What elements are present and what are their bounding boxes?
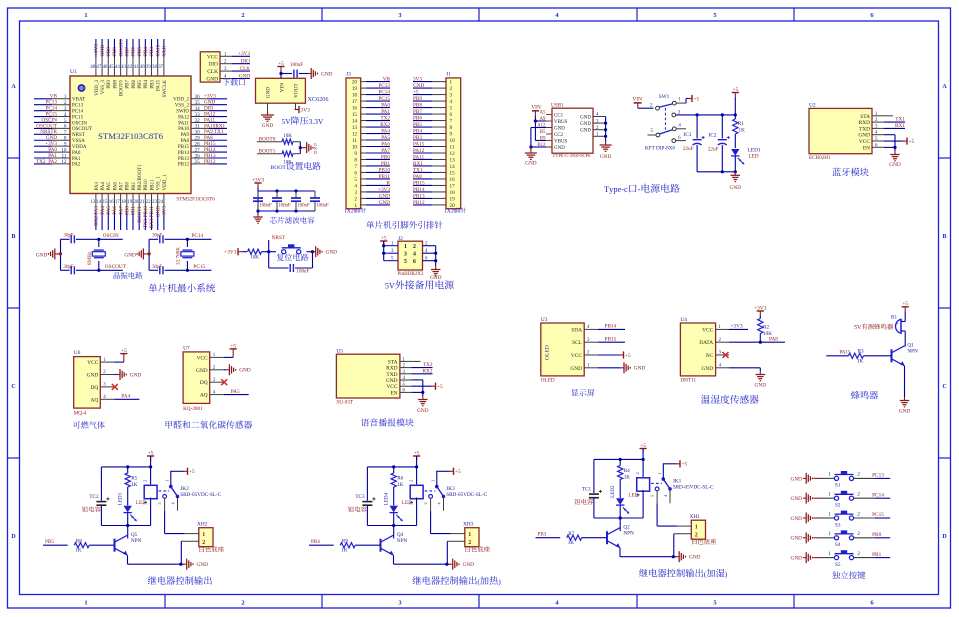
svg-text:OSCIN: OSCIN xyxy=(72,121,87,126)
svg-text:TX1: TX1 xyxy=(895,117,905,123)
svg-text:A: A xyxy=(11,84,16,90)
svg-text:PA6: PA6 xyxy=(113,182,118,191)
svg-text:22uF: 22uF xyxy=(683,146,694,152)
svg-text:BOOT1: BOOT1 xyxy=(137,206,143,223)
wire XH3 pin2 to gnd xyxy=(446,541,448,564)
svg-text:S3: S3 xyxy=(835,522,841,528)
J1 pin 4 net PB9 xyxy=(413,96,453,105)
svg-text:PC15: PC15 xyxy=(378,96,390,102)
svg-text:EN: EN xyxy=(863,145,870,151)
svg-text:15: 15 xyxy=(352,112,358,118)
svg-text:42: 42 xyxy=(127,65,132,70)
svg-text:1: 1 xyxy=(84,12,87,19)
power +5 U6 xyxy=(114,348,127,362)
capacitor TC2 tantalum xyxy=(89,467,109,526)
svg-text:20: 20 xyxy=(352,80,358,86)
push button S1 xyxy=(820,471,860,489)
relay coil JK2 xyxy=(143,467,158,526)
net +3V3 at U4 VCC xyxy=(729,324,748,330)
svg-text:R: R xyxy=(387,180,391,186)
U1 top pin 45 (PB8) net PB8 xyxy=(109,39,119,89)
svg-text:+5: +5 xyxy=(230,343,236,349)
relay contacts JK1 SRD-05VDC-SL-C xyxy=(650,472,714,503)
svg-text:2: 2 xyxy=(143,480,148,482)
U7 pin 2 (GND) xyxy=(196,366,224,374)
svg-text:4: 4 xyxy=(413,251,416,257)
sensor U4 DHT11 body xyxy=(680,317,729,383)
svg-text:+5: +5 xyxy=(732,87,738,93)
svg-text:SRD-05VDC-SL-C: SRD-05VDC-SL-C xyxy=(446,492,487,498)
label 白色底座 XH2 xyxy=(200,546,224,552)
svg-text:PB12: PB12 xyxy=(204,159,216,165)
svg-text:PA11: PA11 xyxy=(178,121,189,126)
caption 显示屏 xyxy=(571,389,595,396)
svg-text:R5: R5 xyxy=(131,476,137,482)
net PC15 xyxy=(187,264,211,270)
svg-text:GND: GND xyxy=(262,123,274,129)
caption 晶振电路 xyxy=(114,272,143,279)
svg-text:+3V3: +3V3 xyxy=(252,177,265,183)
svg-text:PC14: PC14 xyxy=(378,89,390,95)
U1 right pin 33 (PA12) net PA12 xyxy=(178,111,227,120)
U1 left pin 4 (PC15) net PC15 xyxy=(34,111,84,120)
svg-text:RXD: RXD xyxy=(859,120,870,126)
net TX1 at U2 RXD xyxy=(884,117,905,123)
svg-text:PB14: PB14 xyxy=(178,151,190,156)
J3 pin 10 net PA6 xyxy=(352,141,391,150)
svg-text:JK1: JK1 xyxy=(673,478,682,484)
svg-text:VOUT: VOUT xyxy=(294,83,300,98)
svg-text:20: 20 xyxy=(133,200,138,205)
svg-text:NRST: NRST xyxy=(272,235,286,241)
svg-text:JK3: JK3 xyxy=(446,486,455,492)
J3 pin 4 net R xyxy=(354,180,390,189)
power +3V3 reset xyxy=(224,248,247,256)
wire buzzer to Q1 collector xyxy=(904,331,906,347)
capacitor 30pF top Y1 8MHz xyxy=(61,233,99,243)
wire relay JK3 top rail xyxy=(367,465,418,468)
svg-text:GND: GND xyxy=(155,206,161,217)
svg-text:PA4: PA4 xyxy=(121,394,130,400)
svg-text:PB8: PB8 xyxy=(112,47,118,56)
svg-text:GND: GND xyxy=(326,250,338,256)
net PA8 wire at U4 DATA xyxy=(729,337,785,344)
svg-text:GND: GND xyxy=(702,366,714,372)
J3 pin 8 net PB0 xyxy=(354,154,390,163)
svg-text:PB15: PB15 xyxy=(413,180,425,186)
svg-text:ECB02H1: ECB02H1 xyxy=(809,155,831,161)
svg-text:2: 2 xyxy=(857,551,860,557)
svg-text:R9: R9 xyxy=(342,539,348,545)
svg-text:PB1: PB1 xyxy=(132,181,137,190)
power +3V3 above R2 xyxy=(754,305,767,318)
U1 bottom pin 16 (PA6) net PA6 xyxy=(109,182,119,230)
svg-text:8MHz: 8MHz xyxy=(87,251,93,265)
U1 bottom pin 18 (PB0) net PB0 xyxy=(121,181,131,230)
svg-text:24: 24 xyxy=(158,200,163,205)
svg-text:+3V3: +3V3 xyxy=(224,250,237,256)
svg-text:GND: GND xyxy=(634,366,646,372)
ground U4 xyxy=(729,368,766,389)
U1 top pin 47 (VSS_3) net GND xyxy=(96,39,106,94)
svg-text:VDDA: VDDA xyxy=(72,145,87,150)
relay contacts JK3 SRD-05VDC-SL-C xyxy=(423,480,487,511)
net PB14 at U3 SDA xyxy=(598,324,625,330)
wire SW1 pin3 to caps rail xyxy=(676,113,737,116)
power +5 relay contact JK3 xyxy=(436,468,461,487)
caption 下载口 xyxy=(223,78,245,85)
svg-text:5: 5 xyxy=(635,495,640,497)
svg-text:DIO: DIO xyxy=(208,62,218,68)
svg-text:TXD: TXD xyxy=(386,372,397,378)
U1 bottom pin 24 (VDD_1) net +3V3 xyxy=(158,174,168,230)
wire USB1 right gnd bus xyxy=(604,117,607,142)
svg-text:PC14: PC14 xyxy=(72,109,84,114)
ground button S5 xyxy=(791,552,820,563)
svg-text:PB4: PB4 xyxy=(311,539,320,545)
ground U6 xyxy=(114,369,141,380)
svg-text:+5: +5 xyxy=(414,450,420,456)
svg-text:VBAT: VBAT xyxy=(72,98,85,103)
svg-text:PC14: PC14 xyxy=(872,492,884,498)
svg-text:PB4: PB4 xyxy=(143,47,149,56)
transistor Q1 NPN xyxy=(892,343,919,366)
svg-text:U1: U1 xyxy=(70,69,77,75)
svg-text:GND: GND xyxy=(413,83,424,89)
U1 right pin 35 (VSS_2) net GND xyxy=(175,100,227,109)
label 钽电容 TC2 xyxy=(82,506,101,512)
svg-text:+5: +5 xyxy=(625,353,631,359)
svg-text:GND: GND xyxy=(791,496,803,502)
svg-text:PA7: PA7 xyxy=(381,148,390,154)
svg-text:12: 12 xyxy=(352,131,358,137)
U1 left pin 2 (PC13) net PC13 xyxy=(34,100,84,109)
svg-text:PA4: PA4 xyxy=(381,128,390,134)
svg-text:SRD-05VDC-SL-C: SRD-05VDC-SL-C xyxy=(180,492,221,498)
svg-text:B1: B1 xyxy=(891,315,897,321)
svg-text:C: C xyxy=(11,384,15,390)
power +5 into VIN xyxy=(277,61,284,78)
module U5 SU-03T body xyxy=(336,348,411,405)
wire U2 STA stub xyxy=(884,115,893,117)
svg-text:TC2: TC2 xyxy=(89,494,99,500)
svg-text:5: 5 xyxy=(409,503,414,505)
net PC14 xyxy=(187,233,211,239)
connector J2 PinHDR2X3 body xyxy=(384,236,436,277)
svg-text:25: 25 xyxy=(195,159,201,165)
svg-text:16: 16 xyxy=(109,200,114,205)
label 钽电容 TC3 xyxy=(348,506,367,512)
J3 pin 18 net PC14 xyxy=(352,89,391,98)
svg-text:PA3: PA3 xyxy=(95,182,100,191)
push button S2 xyxy=(820,491,860,509)
svg-text:TX2 PA2: TX2 PA2 xyxy=(36,159,57,165)
wire relay JK2 bottom node xyxy=(101,524,150,527)
svg-text:6: 6 xyxy=(354,170,357,176)
no-connect X at U4 NC xyxy=(723,352,730,358)
capacitor 100nF at XC6206 input xyxy=(281,62,308,78)
svg-text:18: 18 xyxy=(121,200,126,205)
wire relay JK3 bottom node xyxy=(367,524,416,527)
svg-text:NPN: NPN xyxy=(131,538,142,544)
svg-text:11: 11 xyxy=(450,144,455,150)
caption 继电器控制输出(加湿) xyxy=(639,569,728,579)
U1 bottom pin 19 (PB1) net PB1 xyxy=(127,181,137,230)
svg-text:5: 5 xyxy=(143,503,148,505)
caption 继电器控制输出 xyxy=(148,576,212,585)
U1 top pin 48 (VDD_3) net +3V3 xyxy=(90,39,100,96)
svg-text:2: 2 xyxy=(409,480,414,482)
svg-text:V: V xyxy=(318,117,324,126)
U1 right pin 29 (PA8) net PA8 xyxy=(181,135,227,144)
svg-text:DIO: DIO xyxy=(241,59,250,65)
svg-text:SWCLK: SWCLK xyxy=(163,80,168,98)
U1 bottom pin 17 (PA7) net PA7 xyxy=(115,182,125,230)
svg-text:10K: 10K xyxy=(283,134,292,139)
U1 right pin 27 (PB14) net PB14 xyxy=(178,147,227,156)
connector XH1 white socket xyxy=(674,514,706,539)
power +5 at U3 VCC xyxy=(598,351,631,359)
svg-text:U4: U4 xyxy=(680,317,687,323)
U1 left pin 9 (VDDA) net +3V3 xyxy=(34,141,87,150)
svg-text:PB8: PB8 xyxy=(113,80,118,89)
svg-text:R4: R4 xyxy=(624,468,630,474)
no-connect X U7 DQ xyxy=(221,379,227,385)
svg-text:GND: GND xyxy=(239,368,251,374)
wire relay NO contact to XH2 xyxy=(165,511,185,534)
svg-text:GND: GND xyxy=(463,562,475,568)
power +5 type-c xyxy=(732,87,739,115)
ground button S1 xyxy=(791,473,820,484)
svg-text:GND: GND xyxy=(554,146,565,151)
svg-text:PA1: PA1 xyxy=(381,109,390,115)
label 钽电容 TC1 xyxy=(574,499,593,505)
svg-text:VCC: VCC xyxy=(197,355,208,361)
transistor Q5 NPN xyxy=(115,526,142,556)
svg-text:+5: +5 xyxy=(278,61,284,67)
svg-text:B5: B5 xyxy=(540,130,546,135)
capacitor 100nF filter 1 xyxy=(253,191,272,211)
J3 pin 12 net PA4 xyxy=(352,128,391,137)
connector XH3 white socket xyxy=(447,522,479,547)
svg-text:LED2: LED2 xyxy=(611,485,616,498)
J1 pin 10 net PB3 xyxy=(413,135,455,144)
svg-text:3: 3 xyxy=(404,251,407,257)
capacitor 100nF filter 3 xyxy=(291,191,310,211)
svg-text:BOOT0: BOOT0 xyxy=(118,39,124,56)
svg-text:TX1: TX1 xyxy=(413,167,423,173)
svg-text:DATA: DATA xyxy=(699,340,713,346)
J3 pin 5 net PB11 xyxy=(354,174,390,183)
switch SW1 KFT DIP-8X8 xyxy=(645,94,686,152)
svg-text:1: 1 xyxy=(828,492,831,498)
J1 pin 17 net PB15 xyxy=(413,180,455,189)
svg-text:PB9: PB9 xyxy=(107,80,112,89)
net OSCOUT xyxy=(99,264,127,270)
svg-text:100nF: 100nF xyxy=(297,203,310,208)
svg-text:47: 47 xyxy=(96,65,101,70)
ground button S4 xyxy=(791,532,820,543)
svg-text:PB3: PB3 xyxy=(149,47,155,56)
svg-text:PA15: PA15 xyxy=(413,141,425,147)
regulator U? XC6206 body xyxy=(256,78,329,103)
svg-text:+5: +5 xyxy=(381,235,387,241)
net PC15 at button S3 xyxy=(854,512,891,518)
svg-text:1K: 1K xyxy=(131,482,138,488)
power +5 relay contact JK1 xyxy=(663,460,688,479)
svg-text:30pF: 30pF xyxy=(64,233,74,238)
svg-text:U6: U6 xyxy=(74,350,81,356)
svg-text:PA8: PA8 xyxy=(769,337,778,343)
svg-text:GND: GND xyxy=(206,77,218,83)
wire relay NO contact to XH3 xyxy=(431,511,451,534)
U1 left pin 11 (PA1) net PA1 xyxy=(34,153,81,162)
svg-text:Q5: Q5 xyxy=(131,532,138,538)
U1 top pin 42 (PB6) net PB6 xyxy=(127,39,137,89)
svg-text:PB1: PB1 xyxy=(131,206,137,215)
svg-text:PA4: PA4 xyxy=(100,206,106,215)
svg-text:1: 1 xyxy=(468,532,471,538)
J1 pin 18 net PB14 xyxy=(413,187,455,196)
svg-text:VSS_2: VSS_2 xyxy=(175,104,190,109)
svg-text:GND: GND xyxy=(525,161,537,167)
J1 pin 7 net PB6 xyxy=(413,115,453,124)
svg-text:PB3: PB3 xyxy=(150,80,155,89)
svg-text:1: 1 xyxy=(828,551,831,557)
svg-text:32.768K: 32.768K xyxy=(175,247,181,265)
svg-text:PB3: PB3 xyxy=(538,532,547,538)
wire Q5 emitter to gnd rail xyxy=(128,555,184,566)
svg-text:D: D xyxy=(314,150,317,155)
svg-text:PB5: PB5 xyxy=(137,47,143,56)
caption 5V外接备用电源 xyxy=(385,280,454,290)
svg-text:10: 10 xyxy=(450,138,456,144)
ground USB1 right xyxy=(600,142,612,161)
svg-text:1: 1 xyxy=(695,525,698,531)
wire relay JK2 top rail xyxy=(101,465,152,468)
svg-text:KFT DIP-8X8: KFT DIP-8X8 xyxy=(645,146,675,152)
caption 甲醛和二氧化碳传感器 xyxy=(166,421,253,429)
resistor R1 1K xyxy=(733,115,745,148)
resistor R8 1K xyxy=(74,539,114,554)
J1 pin 3 net +5 xyxy=(413,89,453,98)
J1 pin 14 net RX1 xyxy=(413,161,455,170)
svg-text:SCL: SCL xyxy=(572,340,582,346)
svg-text:GND: GND xyxy=(100,45,106,56)
svg-text:1X20: 1X20 xyxy=(444,209,457,215)
net RX1 at U2 TXD xyxy=(884,123,905,129)
svg-text:19: 19 xyxy=(352,86,358,92)
capacitor IC1 22uF xyxy=(683,115,705,172)
caption BOOT设置电路 xyxy=(270,162,320,171)
ground relay JK2 xyxy=(184,559,209,570)
U1 left pin 7 (NRST) net NRSTR xyxy=(34,129,85,138)
ground crystal Y1 8MHz xyxy=(36,248,61,259)
net PC13 at button S1 xyxy=(854,473,891,479)
svg-text:10K: 10K xyxy=(250,256,259,261)
resistor R3 1K xyxy=(849,349,892,365)
J1 pin 13 net PA11 xyxy=(413,154,455,163)
U1 right pin 32 (PA11) net PA11 xyxy=(178,117,227,126)
net PA5 at U7 AQ xyxy=(224,389,249,395)
U7 pin 4 (AQ) xyxy=(200,390,224,398)
wire crystal Y2 32.768K left xyxy=(148,239,151,270)
svg-text:100nF: 100nF xyxy=(259,203,272,208)
svg-text:13: 13 xyxy=(352,125,358,131)
svg-text:18: 18 xyxy=(352,92,358,98)
svg-text:U2: U2 xyxy=(809,102,816,108)
svg-text:PA7: PA7 xyxy=(120,182,125,191)
svg-text:16: 16 xyxy=(450,177,456,183)
svg-text:PB5: PB5 xyxy=(138,80,143,89)
svg-text:EN: EN xyxy=(390,390,397,396)
U7 pin 1 (VCC) xyxy=(197,353,224,361)
wire J2 right bus to gnd xyxy=(434,246,437,266)
svg-text:PA2: PA2 xyxy=(72,163,81,168)
svg-text:V: V xyxy=(857,325,862,331)
svg-text:A5: A5 xyxy=(540,111,547,116)
svg-text:OSCOUT: OSCOUT xyxy=(72,127,92,132)
U1 bottom pin 23 (VSS_1) net GND xyxy=(152,176,162,230)
svg-text:2: 2 xyxy=(450,86,453,92)
svg-text:2: 2 xyxy=(241,12,244,19)
svg-text:2: 2 xyxy=(413,244,416,250)
sensor U6 MQ-4 body xyxy=(74,350,101,417)
J1 pin 5 net PB8 xyxy=(413,102,453,111)
wire crystal Y1 8MHz left xyxy=(59,239,62,270)
svg-text:1: 1 xyxy=(828,531,831,537)
svg-text:12: 12 xyxy=(61,159,67,165)
svg-text:1: 1 xyxy=(84,600,87,607)
svg-text:+3V3: +3V3 xyxy=(162,206,168,218)
svg-text:GND: GND xyxy=(197,562,209,568)
svg-text:1K: 1K xyxy=(341,547,348,553)
crystal Y2 32.768K xyxy=(175,238,194,272)
svg-text:IC2: IC2 xyxy=(708,133,716,139)
svg-text:R7: R7 xyxy=(568,531,574,537)
ground U5 xyxy=(417,392,429,414)
relay coil JK1 xyxy=(635,459,650,518)
svg-text:PB9: PB9 xyxy=(413,96,422,102)
J1 pin 6 net PB7 xyxy=(413,109,453,118)
caption 独立按键 xyxy=(832,571,865,579)
svg-text:PB7: PB7 xyxy=(126,80,131,89)
connector J3 header 1X20 body xyxy=(344,72,366,215)
U1 left pin 6 (OSCOUT) net OSCOUT xyxy=(34,123,92,132)
svg-text:2: 2 xyxy=(857,472,860,478)
capacitor TC3 tantalum xyxy=(355,467,375,526)
no-connect X U6 DQ xyxy=(112,384,118,390)
svg-text:AQ: AQ xyxy=(91,397,99,403)
crystal Y1 8MHz xyxy=(87,238,106,272)
svg-text:CC2: CC2 xyxy=(554,133,564,138)
caption 单片机最小系统 xyxy=(149,283,216,292)
buzzer B1 5V active xyxy=(891,315,905,334)
svg-text:PA15: PA15 xyxy=(157,80,162,91)
svg-text:VDD_3: VDD_3 xyxy=(95,80,100,96)
J3 pin 13 net RX2 xyxy=(352,122,391,131)
svg-text:5: 5 xyxy=(354,177,357,183)
net NRST xyxy=(267,235,286,253)
svg-text:R6: R6 xyxy=(397,476,403,482)
power +5 JK2 xyxy=(147,450,154,467)
ground U3 xyxy=(598,362,645,373)
svg-text:PA5: PA5 xyxy=(106,206,112,215)
svg-text:LED4: LED4 xyxy=(384,492,389,505)
svg-text:LED3: LED3 xyxy=(118,492,123,505)
ground button S2 xyxy=(791,493,820,504)
svg-text:6: 6 xyxy=(450,112,453,118)
